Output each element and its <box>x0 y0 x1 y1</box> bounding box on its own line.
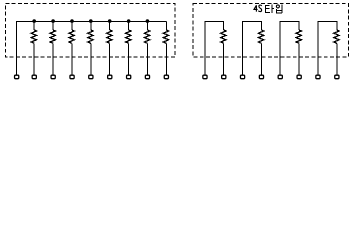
pin 6 <box>108 75 112 79</box>
wire R8 top lead <box>165 22 167 31</box>
label: hangul IP bottom (B shape) <box>277 9 283 13</box>
pin 4 <box>70 75 74 79</box>
junction node on bus <box>146 19 150 23</box>
pin 8 <box>145 75 149 79</box>
element 2 left lead + top bar wire <box>243 22 262 76</box>
resistor R4 <box>88 30 93 43</box>
label: letter S <box>258 5 261 12</box>
pin 9 <box>164 75 168 79</box>
pin 6 of element 3 <box>297 75 301 79</box>
resistor R2 <box>50 30 55 43</box>
wire R4 bottom lead <box>90 43 92 75</box>
junction node on bus <box>108 19 112 23</box>
resistor R5 <box>107 30 112 43</box>
junction node on bus <box>89 19 93 23</box>
pin 7 <box>127 75 131 79</box>
wire R8 bottom lead <box>165 43 167 75</box>
wire R9 bottom lead <box>223 43 225 75</box>
pin 3 <box>51 75 55 79</box>
wire R2 bottom lead <box>52 43 54 75</box>
pin 1 of element 1 <box>203 75 207 79</box>
element 1 left lead + top bar wire <box>205 22 224 76</box>
junction node on bus <box>127 19 131 23</box>
pin 7 of element 4 <box>316 75 320 79</box>
pin 8 of element 4 <box>335 75 339 79</box>
label: digit 4 <box>254 5 258 11</box>
resistor R11 <box>296 30 301 43</box>
element 3 left lead + top bar wire <box>280 22 299 76</box>
resistor R12 <box>334 30 339 43</box>
wire R2 top lead <box>52 22 54 31</box>
pin 5 of element 3 <box>278 75 282 79</box>
junction node on bus <box>51 19 55 23</box>
right package dashed outline (4S type) <box>193 4 348 58</box>
resistor R3 <box>69 30 74 43</box>
wire R7 bottom lead <box>146 43 148 75</box>
label: hangul IP circle <box>276 5 279 8</box>
label: hangul IP vertical <box>281 4 283 13</box>
pin 2 of element 1 <box>222 75 226 79</box>
resistor R7 <box>144 30 149 43</box>
pin 4 of element 2 <box>259 75 263 79</box>
wire R5 bottom lead <box>109 43 111 75</box>
wire R4 top lead <box>90 22 92 31</box>
junction node on bus <box>70 19 74 23</box>
wire R12 bottom lead <box>336 43 338 75</box>
common bus wire <box>17 22 167 76</box>
element 4 left lead + top bar wire <box>318 22 337 76</box>
resistor R6 <box>126 30 131 43</box>
wire R7 top lead <box>146 22 148 31</box>
resistor R10 <box>258 30 263 43</box>
pin 5 <box>89 75 93 79</box>
resistor R9 <box>221 30 226 43</box>
wire R6 bottom lead <box>128 43 130 75</box>
resistor R8 <box>163 30 168 43</box>
pin 3 of element 2 <box>240 75 244 79</box>
junction node on bus <box>32 19 36 23</box>
wire R10 bottom lead <box>260 43 262 75</box>
pin 1 (common lead) <box>15 75 19 79</box>
label: hangul TA consonant (E shape) <box>265 6 270 13</box>
wire R3 top lead <box>71 22 73 31</box>
resistor R1 <box>31 30 36 43</box>
wire R11 bottom lead <box>298 43 300 75</box>
wire R1 top lead <box>33 22 35 31</box>
wire R5 top lead <box>109 22 111 31</box>
wire R1 bottom lead <box>33 43 35 75</box>
wire R3 bottom lead <box>71 43 73 75</box>
wire R6 top lead <box>128 22 130 31</box>
pin 2 <box>32 75 36 79</box>
label: hangul TA vowel (vertical + tick) <box>272 4 274 13</box>
left package dashed outline <box>6 4 176 58</box>
